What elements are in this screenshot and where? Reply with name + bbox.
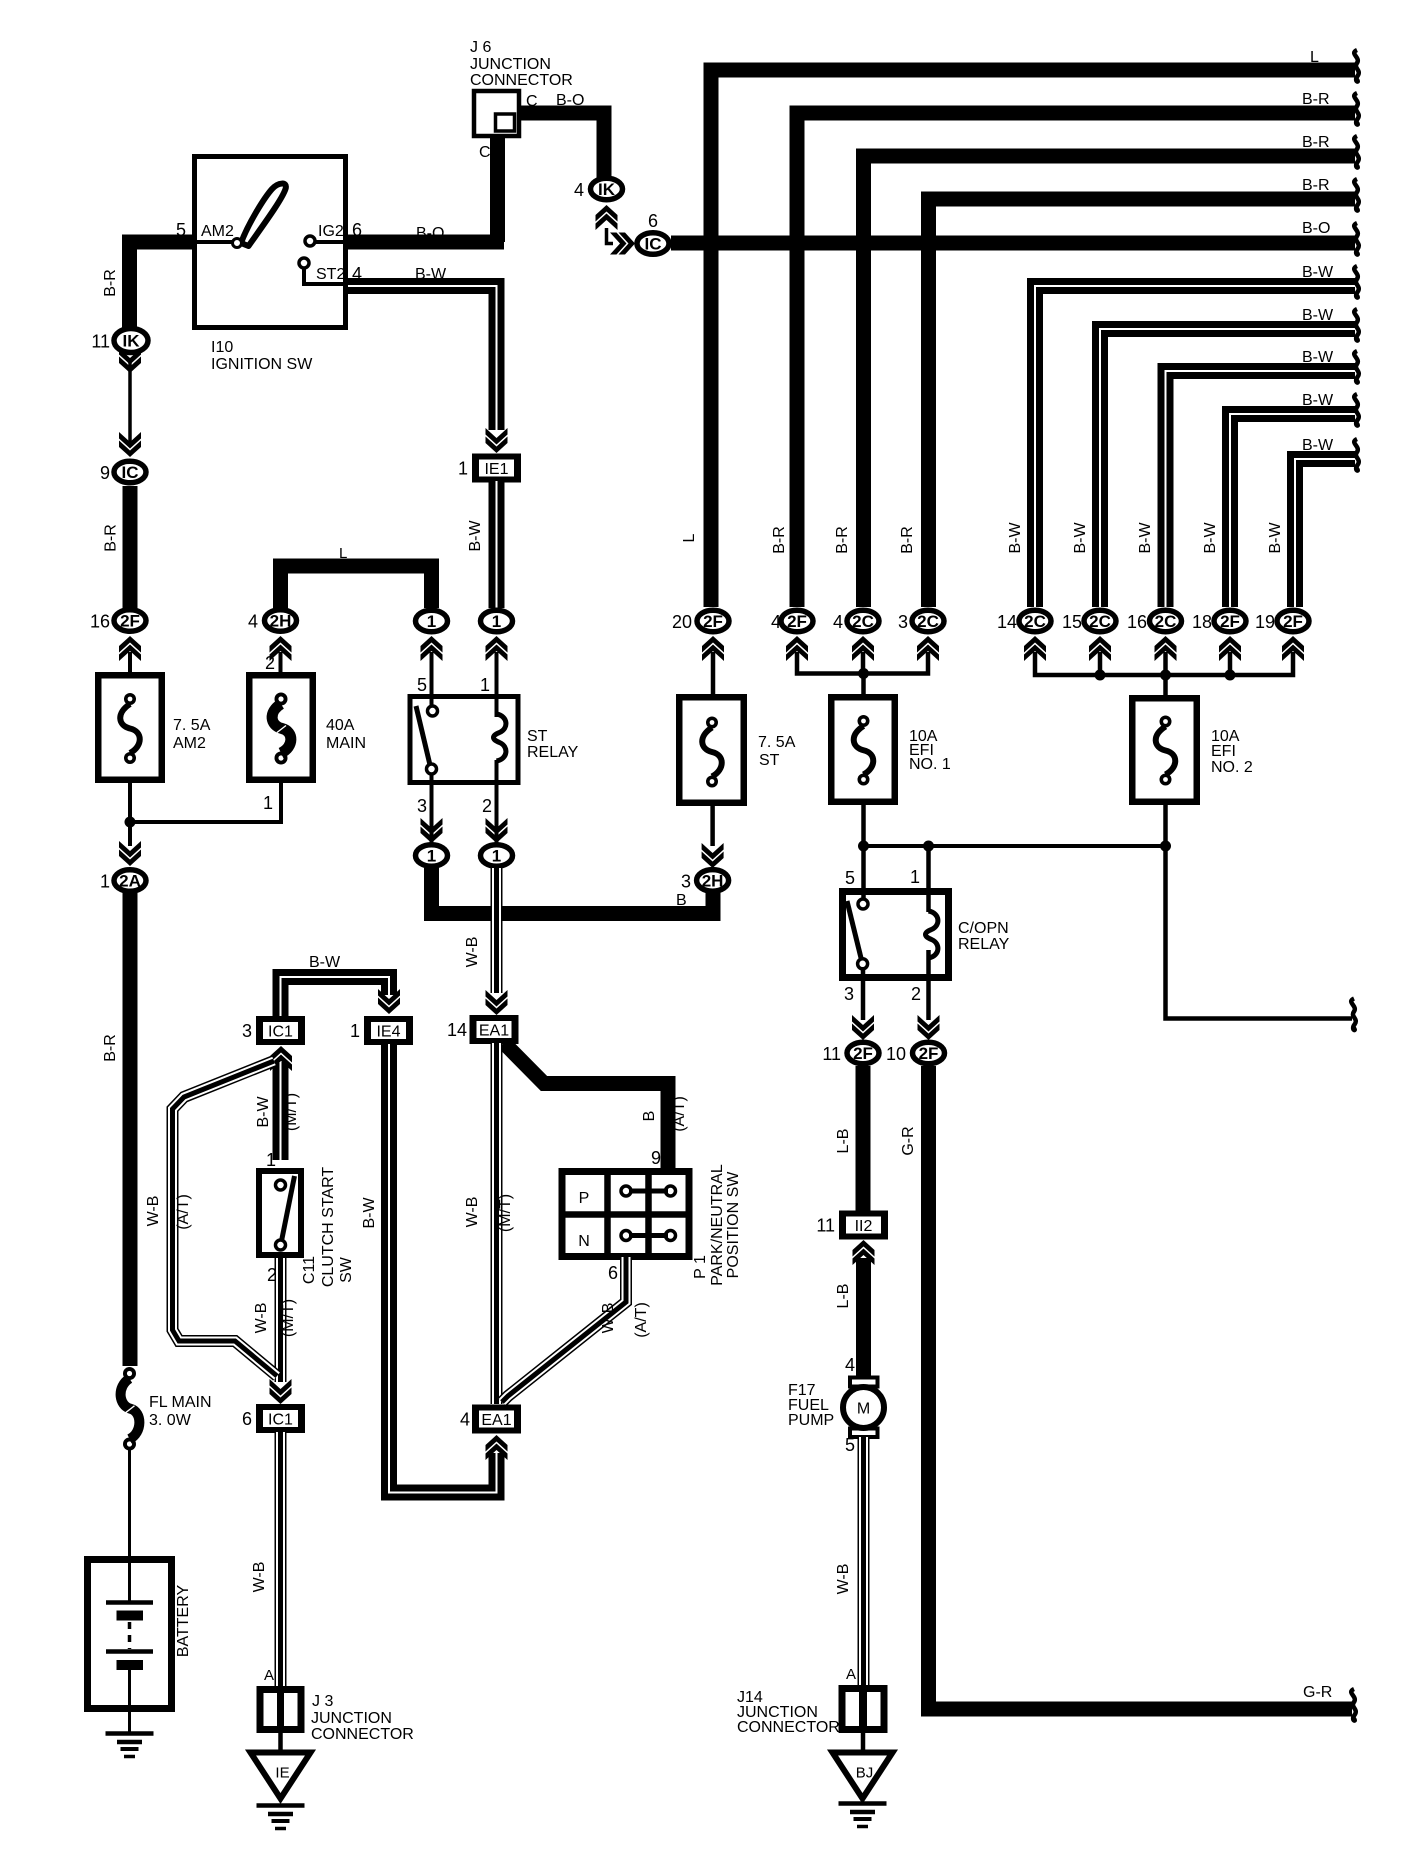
wire B-W IC1 to IE4 [281,977,390,1016]
wire B-W feed 4 (to 2F pin 18) [1230,414,1355,607]
connector 2F pin 20 [672,610,729,632]
torn edge B-W 4 [1354,394,1359,426]
label B-W IE4 col [361,1197,378,1229]
svg-text:W-B: W-B [253,1303,270,1334]
svg-text:1: 1 [266,1150,276,1170]
svg-text:1: 1 [350,1021,360,1041]
label pin 5 [176,220,186,240]
svg-text:L: L [339,545,347,562]
svg-text:2H: 2H [702,871,724,890]
arrow below 2F4 [786,636,808,661]
arrow into EA1 14 [486,990,508,1015]
label B-W MT [255,1096,272,1128]
svg-text:SW: SW [338,1256,355,1283]
wire W-B IC1 to J3 [275,1432,287,1686]
connector 2F pin 18 [1192,610,1246,632]
svg-text:40A: 40A [326,717,355,734]
svg-text:FL MAIN: FL MAIN [149,1394,212,1411]
pigtail C/OPN pin3 [861,969,866,1020]
svg-text:5: 5 [845,868,855,888]
label B-O right edge [1302,220,1330,237]
svg-text:B-O: B-O [416,225,444,242]
pigtail bus to relay pin5 [861,846,866,900]
label C/OPN RELAY [958,920,1010,953]
arrow below 2C14 [1024,636,1046,661]
label A J14 [846,1666,856,1683]
label 10A EFI NO1 [909,728,951,773]
label B-W on feed2 [1072,522,1089,554]
svg-text:B-W: B-W [1302,307,1334,324]
pigtail MAIN to bus [130,783,281,822]
connector 2F pin 19 [1255,610,1309,632]
connector IE1 pin 1 [458,454,521,483]
battery cell 2 short plate [117,1660,144,1670]
wire W-B pump to J14 [858,1437,870,1685]
arrow below 2F19 [1282,636,1304,661]
torn edge of wire L [1354,50,1359,82]
wire J6 pin C to IG2 wire [490,135,505,242]
pigtail EFI1 fuse down [861,803,866,846]
label L on bar [339,545,347,562]
svg-text:JUNCTION: JUNCTION [311,1710,392,1727]
svg-text:2C: 2C [852,612,874,631]
label BATTERY [175,1585,192,1658]
svg-text:2F: 2F [703,612,723,631]
svg-text:1: 1 [427,847,436,866]
svg-text:B-R: B-R [1302,91,1330,108]
junction dot AM2/MAIN [125,817,136,828]
svg-text:ST2: ST2 [316,266,345,283]
wire J14 to BJ [861,1730,866,1752]
arrow below 2C3 [917,636,939,661]
connector 2F pin 4 [771,610,813,632]
label ST RELAY [527,728,579,761]
svg-text:3: 3 [242,1021,252,1041]
label W-B MT [253,1303,270,1334]
svg-text:IK: IK [598,180,616,199]
svg-text:2F: 2F [120,612,140,631]
arrow below 2C15 [1089,636,1111,661]
svg-text:2A: 2A [119,872,141,891]
pigtail 2C4 to bracket [861,652,866,676]
svg-text:4: 4 [574,180,584,200]
label 6 above IC [648,211,658,231]
label PARK/NEUTRAL [709,1164,726,1286]
svg-text:B-R: B-R [1302,134,1330,151]
label 10A EFI NO2 [1211,728,1253,776]
svg-text:2C: 2C [917,612,939,631]
pigtail oval to relay pin5 [430,652,434,707]
P/N grid vertical 2 [645,1171,652,1257]
svg-text:1: 1 [492,847,501,866]
svg-text:IC: IC [122,463,139,482]
park/neutral position switch P1 box [562,1172,689,1257]
wire B relay to 2H3 [432,868,714,914]
svg-text:C11: C11 [301,1256,318,1284]
label B-W 3 [1302,349,1334,366]
fuel pump terminal bottom [850,1429,878,1438]
wire W-B M/T EA1 down [491,1043,503,1404]
svg-text:19: 19 [1255,612,1275,632]
wire B-W clutch pin1 to IC1 [273,1062,289,1160]
fuse EFI NO.2 element [1156,716,1176,786]
label C11 [301,1256,318,1284]
C/OPN coil [926,911,938,958]
svg-text:2F: 2F [1220,612,1240,631]
fuse 10A EFI NO.2 box [1132,698,1197,802]
arrow into IC9 [119,432,141,457]
svg-text:W-B: W-B [251,1562,268,1593]
ground IE lines [257,1806,305,1829]
svg-text:IC: IC [645,235,662,254]
connector oval 1 (relay pin5 side) [416,610,448,632]
label (M/T) lower [280,1299,297,1337]
label W-B AT [145,1196,162,1227]
label B-W on feed4 [1202,522,1219,554]
svg-text:AM2: AM2 [173,735,206,752]
label B-O J6 [556,92,584,109]
pigtail AM2 fuse to junction [128,783,132,822]
svg-text:RELAY: RELAY [527,744,579,761]
label CONNECTOR J14 [737,1719,840,1736]
label 7.5A ST [758,734,796,769]
arrow into II2 from below [853,1240,875,1265]
label pin 1 clutch [266,1150,276,1170]
arrow into IC6 [610,233,635,255]
svg-text:3: 3 [417,796,427,816]
label pin 1 MAIN [263,793,273,813]
wire B-W ST2 to IE1 [348,286,497,430]
pigtail ST fuse down [710,804,715,846]
connector IK pin 11 [91,329,148,353]
label G-R vertical [900,1126,917,1155]
label G-R right [1303,1684,1332,1701]
label ST2 [316,266,345,283]
svg-text:B-W: B-W [1302,349,1334,366]
fuse 10A EFI NO.1 box [831,697,895,802]
label B-W 1 [1302,264,1334,281]
ST relay switch contacts [427,706,438,774]
label pin 2 MAIN [265,653,275,673]
wire W-B P/N pin6 down [502,1257,626,1402]
arrow into 2A [119,841,141,866]
svg-text:M: M [857,1401,870,1418]
arrow below 2H4 [270,636,292,661]
connector IC pin 6 [637,233,669,255]
svg-text:B-W: B-W [1302,392,1334,409]
label pin5 C/OPN [845,868,855,888]
torn edge G-R [1351,1689,1356,1721]
P/N grid vertical 1 [604,1171,611,1257]
svg-text:2F: 2F [853,1044,873,1063]
svg-text:AM2: AM2 [201,223,234,240]
junction dot EFI1 bracket [858,668,869,679]
svg-text:IGNITION SW: IGNITION SW [211,356,313,373]
torn edge B-W 5 [1354,439,1359,471]
svg-text:B-W: B-W [1302,437,1334,454]
svg-text:ST: ST [759,752,780,769]
svg-text:B-W: B-W [361,1197,378,1229]
pigtail 2H4 to fuse [279,652,283,674]
label pin 4 [352,264,362,284]
label IGNITION SW [211,356,313,373]
battery (12V) box [88,1560,172,1709]
svg-text:B-W: B-W [467,520,484,552]
svg-text:6: 6 [242,1409,252,1429]
svg-text:L: L [681,533,698,542]
svg-text:IK: IK [123,332,141,351]
label pin 4 pump [845,1355,855,1375]
ground triangle BJ [833,1753,893,1799]
svg-text:N: N [578,1233,590,1250]
C/OPN lever [847,901,862,960]
junction dot C/OPN pin5 [858,841,869,852]
connector IC1 pin 6 [242,1404,305,1433]
pigtail 2C16 to bracket [1163,652,1168,677]
fuel pump terminal top [850,1378,878,1387]
svg-text:2C: 2C [1089,612,1111,631]
arrow into 2F10 [918,1015,940,1040]
label pin1 C/OPN [910,867,920,887]
label B-R 2 [1302,134,1330,151]
connector EA1 pin 14 [447,1015,519,1044]
label P [579,1190,590,1207]
connector 2A pin 1 [100,870,146,892]
label (M/T) col [497,1194,514,1232]
junction dot EFI2 bottom [1160,841,1171,852]
label POSITION SW [725,1171,742,1279]
svg-text:4: 4 [248,612,258,632]
arrow into EA1 pin4 [486,1435,508,1460]
connector 2C pin 4 [833,610,879,632]
svg-text:B: B [676,892,687,909]
svg-text:5: 5 [845,1435,855,1455]
label W-B J3 col [251,1562,268,1593]
svg-text:3: 3 [681,871,691,891]
fuse 7.5A AM2 box [98,675,162,780]
wire IK11 to IC9 [128,362,132,445]
svg-text:A: A [846,1666,856,1683]
svg-text:6: 6 [608,1263,618,1283]
label J 3 [312,1693,333,1710]
label B-R 1 [1302,91,1330,108]
svg-text:2F: 2F [919,1044,939,1063]
ground triangle IE [251,1753,311,1799]
svg-text:3: 3 [898,612,908,632]
label pin 1 relay [480,675,490,695]
bracket 2C14..2F19 [1035,652,1293,675]
wire L bar [281,566,432,608]
svg-text:A: A [264,1667,274,1684]
svg-text:C: C [479,144,491,161]
svg-text:4: 4 [833,612,843,632]
svg-text:4: 4 [771,612,781,632]
pigtail 2F16 to fuse [128,652,132,674]
svg-text:J 3: J 3 [312,1693,333,1710]
arrow into IE4 [378,989,400,1014]
svg-text:B-O: B-O [1302,220,1330,237]
svg-text:5: 5 [417,675,427,695]
junction dot EFI2 c [1225,670,1236,681]
arrow below 2F18 [1219,636,1241,661]
arrow into IK4 [596,205,618,230]
svg-text:G-R: G-R [1303,1684,1332,1701]
svg-text:POSITION SW: POSITION SW [725,1171,742,1279]
svg-text:2: 2 [482,796,492,816]
svg-text:W-B: W-B [464,937,481,968]
ST relay coil [494,714,506,761]
svg-text:2F: 2F [787,612,807,631]
wire EFI2 fuse down to torn [1166,803,1353,1019]
svg-text:1: 1 [100,872,110,892]
svg-text:EA1: EA1 [481,1412,511,1429]
label W-B MT col [464,1197,481,1228]
label L right edge [1310,49,1319,66]
battery ground [106,1734,154,1757]
contact IG2 [305,236,345,246]
wire W-B clutch pin2 down [275,1258,287,1382]
connector 2F pin 11 [822,1042,879,1064]
connector EA1 pin 4 [460,1405,521,1434]
svg-text:16: 16 [1127,612,1147,632]
svg-text:ST: ST [527,728,548,745]
svg-text:B-W: B-W [1302,264,1334,281]
svg-text:14: 14 [447,1020,467,1040]
label B-W on feed3 [1137,522,1154,554]
pigtail bus to relay coil pin1 [926,846,931,912]
connector IE4 pin 1 [350,1016,413,1045]
torn edge B-R 3 [1354,179,1359,211]
svg-text:7. 5A: 7. 5A [758,734,796,751]
connector IK pin 4 [574,178,623,200]
label JUNCTION J3 [311,1710,392,1727]
svg-text:G-R: G-R [900,1126,917,1155]
label B-R lower [102,1034,119,1062]
svg-text:RELAY: RELAY [958,936,1010,953]
svg-text:7. 5A: 7. 5A [173,717,211,734]
svg-text:NO. 2: NO. 2 [1211,759,1253,776]
label SW [338,1256,355,1283]
svg-text:10: 10 [886,1044,906,1064]
torn edge B-R 1 [1354,93,1359,125]
svg-text:CLUTCH START: CLUTCH START [320,1167,337,1288]
svg-text:11: 11 [91,332,110,352]
arrow into 2H3 [702,843,724,868]
fusible link FL MAIN [121,1367,140,1451]
N row bar [629,1233,668,1238]
svg-text:(M/T): (M/T) [497,1194,514,1232]
svg-text:(A/T): (A/T) [175,1194,192,1230]
N row contact right [666,1231,676,1241]
contact ST2 [299,258,345,284]
P row contact right [666,1186,676,1196]
wire FL MAIN to battery [128,1450,131,1601]
svg-text:B-W: B-W [1202,522,1219,554]
svg-text:9: 9 [100,463,110,483]
label pin 9 [651,1148,661,1168]
label F17 FUEL PUMP [788,1382,834,1429]
junction dot EFI2 a [1095,670,1106,681]
svg-text:(M/T): (M/T) [280,1299,297,1337]
label J14 [737,1689,763,1706]
wire to 2A [128,822,132,846]
svg-text:(A/T): (A/T) [671,1096,688,1132]
svg-text:P 1: P 1 [692,1255,709,1279]
label pin 5 pump [845,1435,855,1455]
svg-text:(A/T): (A/T) [633,1302,650,1338]
label pin 2 clutch [267,1265,277,1285]
label IG2 [318,223,344,240]
svg-text:1: 1 [910,867,920,887]
label 7.5A AM2 [173,717,211,752]
label (A/T) pin6 [633,1302,650,1338]
svg-text:EFI: EFI [1211,743,1236,760]
svg-text:L-B: L-B [835,1284,852,1309]
svg-text:B-R: B-R [1302,177,1330,194]
svg-text:6: 6 [648,211,658,231]
pigtail C/OPN pin2 [926,950,931,1020]
wire B-R feed 1 (to 2F pin 4) [797,113,1355,607]
wire W-B A/T bypass [173,1061,278,1376]
label JUNCTION J6 [470,56,551,73]
label L-B upper [835,1129,852,1154]
arrow below oval1 left [421,636,443,661]
connector 2H pin 4 [248,610,297,632]
svg-text:IE1: IE1 [484,461,508,478]
pigtail 2F18 to bracket [1228,652,1233,677]
svg-text:20: 20 [672,612,692,632]
pigtail 2C15 to bracket [1098,652,1103,677]
torn edge B-W 3 [1354,351,1359,383]
label pin2 C/OPN [911,984,921,1004]
battery dashed link [128,1622,132,1649]
label B-R col A [103,524,120,552]
label P 1 [692,1255,709,1279]
fusible link 40A MAIN [272,693,291,765]
label B-W 4 [1302,392,1334,409]
label pin 5 relay [417,675,427,695]
svg-text:EA1: EA1 [479,1023,509,1040]
svg-text:1: 1 [492,612,501,631]
label B-R on feed3 [899,526,916,554]
svg-text:NO. 1: NO. 1 [909,756,951,773]
arrow below IK11 [119,348,141,373]
svg-text:2: 2 [911,984,921,1004]
wire W-B oval to EA1 [491,868,503,993]
label pin 6 [608,1263,618,1283]
svg-text:14: 14 [997,612,1017,632]
connector II2 pin 11 [816,1211,888,1240]
svg-text:W-B: W-B [835,1564,852,1595]
svg-text:18: 18 [1192,612,1212,632]
svg-text:MAIN: MAIN [326,735,366,752]
svg-text:16: 16 [90,612,110,632]
label FL MAIN [149,1394,212,1429]
label B-W col D [467,520,484,552]
svg-text:1: 1 [458,459,468,479]
svg-text:4: 4 [460,1410,470,1430]
torn edge EFI2 stub [1351,999,1356,1031]
connector IC pin 9 [100,461,146,483]
label C bottom [479,144,491,161]
svg-text:JUNCTION: JUNCTION [470,56,551,73]
wire B-R from AM2 pin5 [130,242,193,328]
label CLUTCH START [320,1167,337,1288]
label N [578,1233,590,1250]
svg-text:IC1: IC1 [268,1024,293,1041]
P/N grid horizontal [562,1211,689,1218]
svg-text:CONNECTOR: CONNECTOR [311,1726,414,1743]
